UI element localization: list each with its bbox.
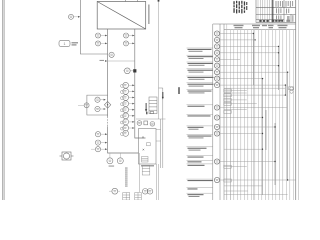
- control valve diamond: [104, 101, 110, 108]
- row label 1: [187, 48, 213, 52]
- row label 6: [187, 83, 214, 87]
- row label 14: [187, 160, 213, 162]
- dark cable marker: [178, 87, 179, 94]
- bottom bubbles pair: [142, 189, 152, 195]
- row label 16: [187, 179, 213, 181]
- instrument bubble strip: [214, 31, 219, 183]
- interlock row circle left: [137, 121, 142, 126]
- main pipe line: [108, 29, 139, 153]
- row label 10: [187, 126, 213, 130]
- title block dark text row: [259, 20, 290, 22]
- table frame verticals: [213, 24, 224, 200]
- title block frame: [256, 0, 296, 22]
- secondary pipe line: [135, 29, 146, 138]
- positioner bubble with solenoid: [123, 68, 136, 74]
- bottom motor bubble: [109, 188, 120, 194]
- off-page connector box: [59, 40, 70, 46]
- pump unit: [60, 152, 74, 160]
- local panel internals: [142, 137, 151, 163]
- pump control bubbles: [107, 153, 123, 164]
- junction dots: [253, 33, 289, 181]
- instrument bubble TI at riser: [69, 14, 81, 19]
- cable label strip: [125, 168, 128, 187]
- wire bus horizontal: [136, 118, 166, 120]
- junction bubble at elbow: [109, 52, 114, 57]
- junction box JB1: [149, 97, 157, 114]
- row label 3: [187, 62, 213, 66]
- sub panel box below: [142, 166, 150, 176]
- row label 11: [187, 135, 213, 139]
- bottom terminal table A: [123, 193, 130, 200]
- transmitter bubble chain: [123, 82, 129, 136]
- sheet left border: [3, 0, 4, 200]
- bubble chain left ears: [121, 84, 124, 135]
- row label 17: [187, 188, 213, 190]
- row label 12: [187, 147, 213, 151]
- title block dark rule: [272, 0, 274, 22]
- bubble pair left under exchanger: [96, 33, 108, 46]
- bubble chain arrows: [129, 84, 135, 128]
- pump bubble label: [109, 166, 115, 167]
- revision vertical text block: [233, 1, 247, 14]
- pipe riser from top: [80, 0, 107, 54]
- row label 13: [187, 156, 213, 158]
- row label 5: [187, 76, 214, 80]
- interlock row circle right: [150, 122, 155, 127]
- bubble pair right under exchanger: [124, 33, 135, 46]
- signal branch to secondary line: [100, 60, 135, 62]
- row label 9: [187, 115, 213, 117]
- title block: [258, 0, 271, 22]
- panel tail wires: [157, 164, 159, 200]
- sample loop: [87, 95, 108, 115]
- marshalling dark bus segments: [227, 34, 288, 201]
- row label 18: [187, 193, 213, 197]
- row label 7: [187, 90, 213, 94]
- table row wires upper: [220, 34, 296, 195]
- header texts: [234, 25, 288, 29]
- bubble tag smudges: [70, 16, 219, 192]
- connector label text: [72, 42, 79, 45]
- row label 2: [187, 55, 213, 59]
- svg-text:1: 1: [64, 42, 66, 46]
- table top rule: [213, 24, 296, 30]
- sheet right border: [296, 0, 299, 200]
- signal drop line: [156, 88, 164, 168]
- row label 15: [187, 164, 213, 166]
- signal riser to table: [158, 0, 160, 119]
- row label 8: [187, 105, 213, 107]
- terminal boxes in table: [224, 87, 294, 182]
- local panel box: [139, 129, 157, 165]
- title block texts: [276, 1, 294, 22]
- heat exchanger label (vertical text): [148, 5, 149, 25]
- interlock block: [144, 112, 154, 125]
- heat exchanger E1: [97, 0, 146, 29]
- grid verticals light: [227, 24, 293, 200]
- analyzer bubble on loop: [78, 103, 89, 108]
- row label 4: [187, 69, 213, 73]
- wire drop to bottom cluster: [138, 153, 140, 192]
- bottom terminal table B: [135, 193, 142, 200]
- loop bubbles: [95, 97, 106, 112]
- valve bubbles lower: [91, 132, 107, 152]
- cable arrow down: [145, 103, 147, 112]
- local panel label: [141, 165, 154, 166]
